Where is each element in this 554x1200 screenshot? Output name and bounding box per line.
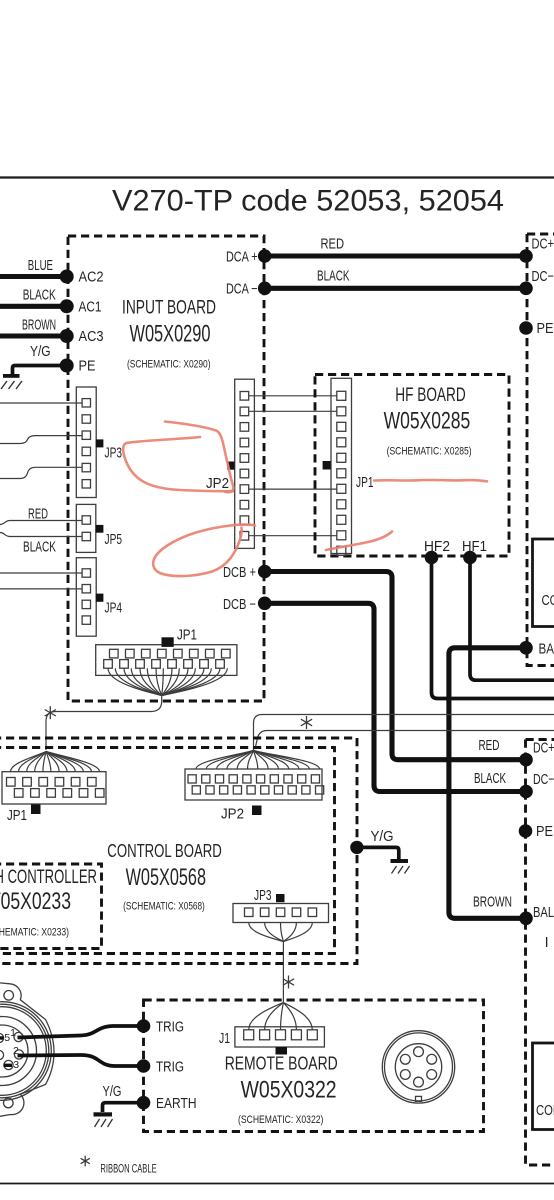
controller dashed box [0, 864, 102, 949]
svg-text:BROWN: BROWN [473, 895, 512, 911]
svg-text:(SCHEMATIC: X0568): (SCHEMATIC: X0568) [123, 901, 205, 913]
connector JP4 (input board) [76, 558, 122, 637]
svg-text:BLACK: BLACK [23, 288, 56, 304]
svg-text:V270-TP code 52053, 52054: V270-TP code 52053, 52054 [112, 185, 504, 218]
input board title [122, 298, 216, 371]
panel socket connector (left) [0, 983, 54, 1118]
wires to JP3 [0, 402, 82, 404]
svg-text:RIBBON CABLE: RIBBON CABLE [100, 1162, 156, 1176]
red annotation curve HF bottom [326, 532, 392, 551]
node DCA + [258, 249, 272, 263]
node DC+ upper [519, 249, 533, 263]
svg-text:BAL: BAL [533, 905, 554, 921]
svg-text:JP1: JP1 [356, 475, 374, 491]
solid box CON lower [533, 1043, 554, 1130]
node PE input [60, 359, 74, 373]
ribbon fan below control JP3 [249, 923, 313, 942]
node TRIG 1 [137, 1019, 151, 1033]
node DC- upper [519, 282, 533, 296]
wire Y/G to PE with ground [13, 366, 65, 375]
wire BLACK to JP5 [0, 533, 82, 537]
solid box CO upper [533, 539, 554, 627]
asterisk ribbon 1 [45, 706, 56, 719]
svg-text:RED: RED [28, 507, 48, 523]
svg-text:BLUE: BLUE [28, 258, 53, 274]
wire HF2 to right edge [432, 558, 554, 699]
svg-text:DCB −: DCB − [223, 597, 256, 613]
node HF2 [425, 551, 439, 565]
svg-text:DCA −: DCA − [226, 282, 258, 298]
svg-text:INPUT BOARD: INPUT BOARD [122, 298, 216, 319]
svg-text:(SCHEMATIC: X0285): (SCHEMATIC: X0285) [387, 446, 472, 458]
red annotation tail through JP2 marker [165, 422, 233, 493]
asterisk ribbon 2 [301, 716, 312, 729]
ribbon fan below JP1 input [108, 668, 227, 695]
connector JP3 (input board) [76, 387, 122, 498]
right lower panel dashed outline [526, 740, 554, 1166]
svg-text:I: I [545, 935, 549, 951]
node HF1 [463, 551, 477, 565]
bottom border rule [0, 1183, 554, 1185]
connector JP1 (input board) [96, 628, 237, 676]
connector JP2 (input board) [206, 379, 254, 548]
control board inner dashed outline [0, 748, 335, 954]
svg-text:AC2: AC2 [79, 270, 104, 286]
node AC2 [60, 270, 74, 284]
svg-text:(SCHEMATIC: X0290): (SCHEMATIC: X0290) [127, 359, 211, 371]
remote board title [225, 1053, 338, 1127]
red annotation line at HF JP1 [374, 480, 487, 481]
node PE lower [519, 824, 533, 838]
connector JP1 (HF board) [323, 378, 374, 555]
control board outer dashed outline [0, 738, 357, 964]
svg-text:EARTH: EARTH [156, 1096, 197, 1112]
node DC- lower [519, 785, 533, 799]
wire DCB+ to DC+ (lower box) [265, 572, 526, 760]
svg-text:BAL: BAL [539, 642, 554, 658]
svg-text:JP2: JP2 [206, 476, 229, 492]
input board dashed outline [68, 236, 264, 701]
wire BROWN BAL to lower BAL [449, 648, 526, 919]
svg-text:W05X0322: W05X0322 [241, 1077, 337, 1104]
svg-text:DCA +: DCA + [226, 250, 258, 266]
svg-text:TRIG: TRIG [156, 1060, 184, 1076]
wire DCB- to DC- (lower box) [265, 603, 526, 791]
svg-text:DC+: DC+ [532, 237, 554, 253]
ribbon fan above control JP2 [196, 751, 320, 770]
round connector (remote board) [382, 1031, 454, 1103]
ribbon cable JP3 to remote J1 [282, 942, 284, 1003]
wire BLACK to AC1 [0, 304, 64, 309]
svg-text:BLACK: BLACK [474, 771, 506, 787]
svg-text:BLACK: BLACK [23, 540, 56, 556]
svg-text:AC3: AC3 [79, 329, 104, 345]
svg-text:JP5: JP5 [105, 532, 123, 548]
svg-text:RED: RED [321, 237, 345, 253]
wire color labels [22, 258, 56, 360]
svg-text:PE: PE [79, 359, 96, 375]
ribbon fan above control JP1 [11, 752, 100, 772]
connector JP1 (control board) [2, 772, 106, 824]
svg-text:HF BOARD: HF BOARD [395, 385, 465, 406]
svg-text:(SCHEMATIC: X0322): (SCHEMATIC: X0322) [238, 1114, 323, 1126]
svg-text:Y/G: Y/G [30, 344, 51, 360]
svg-text:JP2: JP2 [221, 807, 244, 823]
wire EARTH to ground [103, 1103, 138, 1112]
svg-text:JP3: JP3 [254, 888, 272, 904]
svg-text:BROWN: BROWN [22, 318, 56, 334]
remote board dashed outline [144, 1000, 484, 1132]
ground symbol (earth) [94, 1112, 113, 1127]
wire TRIG 1 [18, 1026, 138, 1038]
svg-text:JP4: JP4 [105, 601, 123, 617]
wire BLACK DCA- to DC- [265, 286, 526, 291]
node PE upper [519, 321, 533, 335]
node BAL upper [519, 641, 533, 655]
svg-text:JP1: JP1 [177, 628, 197, 644]
svg-text:HF1: HF1 [462, 539, 487, 555]
asterisk ribbon 3 [283, 976, 294, 989]
ribbon cable input JP1 to control JP1 [46, 694, 162, 750]
wire Y/G to ground [357, 847, 399, 859]
wire RED DCA+ to DC+ [265, 253, 526, 258]
node BAL lower with BROWN label [519, 912, 533, 926]
svg-text:RED: RED [479, 738, 500, 754]
ground symbol (control board) [391, 859, 410, 874]
right upper panel dashed outline [527, 234, 554, 666]
node EARTH [137, 1096, 151, 1110]
top border rule [0, 176, 554, 178]
svg-text:5: 5 [4, 1032, 10, 1044]
svg-text:AC1: AC1 [79, 299, 102, 315]
ground symbol (mains PE) [1, 374, 22, 389]
wire HF1 to right edge [470, 558, 554, 681]
red annotation loop lower [153, 525, 255, 576]
wire RED to JP5 [0, 521, 82, 525]
svg-text:HF2: HF2 [424, 539, 450, 555]
svg-text:1: 1 [10, 1027, 16, 1039]
svg-text:(SCHEMATIC: X0233): (SCHEMATIC: X0233) [0, 927, 69, 939]
wire TRIG 2 [18, 1055, 138, 1066]
node DCB + [258, 565, 272, 579]
svg-text:W05X0568: W05X0568 [126, 864, 206, 891]
wire BROWN to AC3 [0, 333, 64, 338]
connector J1 (remote board) [219, 1027, 324, 1055]
connector JP2 (control board) [185, 769, 324, 823]
svg-text:W05X0290: W05X0290 [130, 321, 211, 348]
wires to JP4 [0, 572, 82, 574]
node AC1 [60, 299, 74, 313]
control board title [107, 840, 221, 913]
node DC+ lower [519, 753, 533, 767]
svg-text:REMOTE BOARD: REMOTE BOARD [225, 1053, 338, 1074]
svg-text:3: 3 [13, 1059, 19, 1071]
svg-text:DCB +: DCB + [223, 565, 256, 581]
red annotation loop around JP3/JP2 [123, 437, 233, 491]
ribbon cable control JP2 to right edge (line B) [254, 715, 554, 751]
svg-text:JP1: JP1 [7, 808, 27, 824]
svg-text:CO: CO [542, 593, 554, 609]
ribbon wires input JP2 to HF JP1 [249, 396, 337, 536]
ribbon cable line C to right edge [255, 731, 554, 750]
connector JP5 (input board) [76, 504, 122, 552]
node DCA - [258, 282, 272, 296]
node TRIG 2 [137, 1059, 151, 1073]
node DCB - [258, 597, 272, 611]
svg-text:CON: CON [536, 1103, 554, 1119]
controller title [0, 867, 97, 939]
svg-text:Y/G: Y/G [103, 1084, 122, 1100]
svg-text:W05X0285: W05X0285 [384, 408, 471, 435]
svg-text:PE: PE [537, 321, 554, 337]
svg-text:W05X0233: W05X0233 [0, 888, 71, 915]
svg-text:Y/G: Y/G [371, 829, 394, 845]
svg-text:DC+: DC+ [533, 741, 554, 757]
HF board title [384, 385, 472, 458]
svg-text:TRIG: TRIG [156, 1020, 184, 1036]
svg-text:BLACK: BLACK [317, 269, 350, 285]
node Y/G control board [350, 841, 363, 854]
svg-text:DC−: DC− [533, 772, 554, 788]
svg-text:PE: PE [536, 824, 553, 840]
svg-text:J1: J1 [219, 1031, 230, 1047]
ribbon fan above remote J1 [249, 1003, 313, 1030]
svg-text:JP3: JP3 [105, 446, 123, 462]
node AC3 [60, 329, 74, 343]
connector JP3 (control board) [233, 888, 329, 923]
svg-text:CONTROL BOARD: CONTROL BOARD [107, 840, 221, 861]
svg-text:DC−: DC− [532, 269, 554, 285]
HF board dashed outline [315, 375, 509, 557]
svg-text:H CONTROLLER: H CONTROLLER [0, 867, 97, 888]
wire BLUE to AC2 [0, 274, 64, 279]
asterisk legend [81, 1156, 90, 1167]
